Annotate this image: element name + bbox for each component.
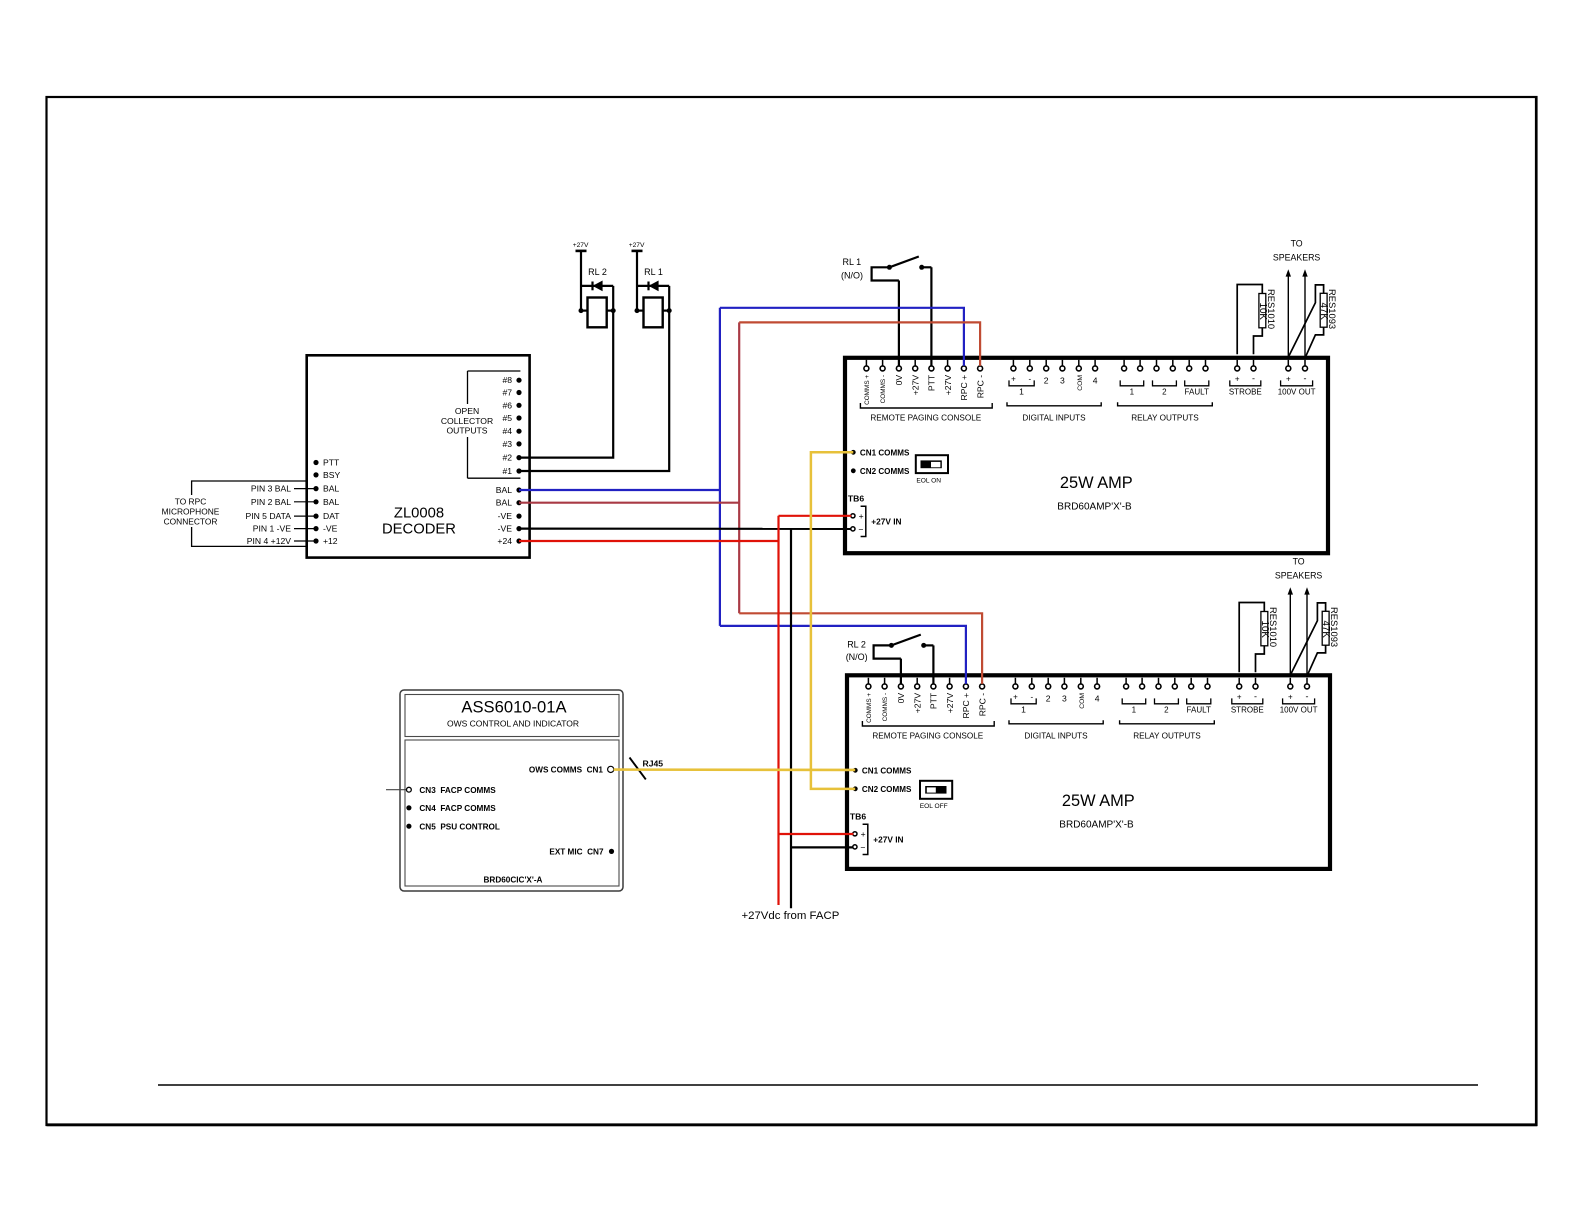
svg-text:PIN 5 DATA: PIN 5 DATA [245,511,291,521]
svg-text:-: - [1028,375,1031,384]
decoder left pin +12 [313,536,337,546]
svg-text:+12: +12 [323,536,338,546]
wire strobe- to RES1010 [1254,328,1263,355]
svg-text:(N/O): (N/O) [841,271,863,281]
svg-text:100V OUT: 100V OUT [1278,388,1316,397]
svg-text:ZL0008: ZL0008 [394,506,444,522]
terminals remote paging console amp2 [866,678,987,723]
svg-text:4: 4 [1095,694,1100,704]
terminals relay outputs amp1 [1120,360,1209,397]
svg-text:BRD60AMP'X'-B: BRD60AMP'X'-B [1057,501,1132,512]
decoder right pin BAL [496,485,522,495]
svg-text:DIGITAL INPUTS: DIGITAL INPUTS [1022,413,1086,422]
bracket digital inputs amp2 [1009,720,1103,740]
svg-text:CN1 COMMS: CN1 COMMS [862,766,912,775]
wire decoder #2 to RL2 coil [519,311,613,458]
label PIN 3 BAL [251,484,316,494]
svg-text:3: 3 [1060,376,1065,386]
svg-text:RELAY OUTPUTS: RELAY OUTPUTS [1133,731,1201,740]
footer rule line [158,1084,1478,1086]
svg-text:-: - [1304,374,1307,384]
label TO SPEAKERS [1275,557,1323,581]
svg-text:COMMS +: COMMS + [866,693,873,723]
power +27V supply for RL 1 [629,242,645,251]
terminals remote paging console amp1 [864,360,985,405]
speaker line + with arrow [1288,587,1293,674]
svg-text:(N/O): (N/O) [846,652,868,662]
decoder left pin DAT [313,511,340,521]
svg-text:3: 3 [1062,694,1067,704]
decoder right pin -VE [498,511,522,521]
svg-text:COLLECTOR: COLLECTOR [441,416,493,426]
relay contact RL 2 (N/O) [846,635,934,684]
wire RL 1 right side down [668,286,670,311]
svg-text:STROBE: STROBE [1229,388,1262,397]
svg-text:TO: TO [1291,239,1303,249]
svg-text:25W AMP: 25W AMP [1060,474,1133,492]
pin EXT MIC CN7 [549,848,614,857]
svg-text:+: + [861,829,866,839]
EOL switch amp1 (ON) [916,455,948,484]
svg-text:+: + [1288,693,1293,702]
svg-text:25W AMP: 25W AMP [1062,792,1135,810]
flyback diode D-RL 2 [581,281,613,292]
svg-text:1: 1 [1019,387,1024,397]
svg-text:+: + [1286,375,1291,384]
svg-text:COMMS -: COMMS - [882,693,889,721]
svg-text:0V: 0V [896,693,906,704]
junction dots RL 2 [579,308,616,313]
svg-text:CN2 COMMS: CN2 COMMS [862,785,912,794]
svg-text:TB6: TB6 [848,493,864,503]
svg-text:SPEAKERS: SPEAKERS [1273,253,1321,263]
svg-text:+: + [859,511,864,521]
decoder right pin +24 [497,536,521,546]
resistor RES1010 10K across strobe [1257,289,1277,329]
svg-text:PIN 3 BAL: PIN 3 BAL [251,484,291,494]
relay coil RL 1 [637,267,669,327]
wire black -VE branch down to lower amp TB6- [791,529,853,909]
decoder left pin PTT [313,458,340,468]
svg-text:+27V: +27V [912,693,922,714]
svg-text:+: + [1237,693,1242,702]
25W amp board U3 BRD60AMP'X'-B outline [847,675,1330,869]
svg-text:REMOTE PAGING CONSOLE: REMOTE PAGING CONSOLE [870,413,981,422]
pin CN1 COMMS amp2 [853,766,912,775]
OWS control box ASS6010-01A outline [400,690,623,891]
flyback diode D-RL 1 [637,281,669,292]
svg-text:#1: #1 [502,466,512,476]
svg-text:+27V: +27V [573,242,589,249]
svg-text:RPC +: RPC + [961,693,971,719]
terminals strobe amp2 [1231,678,1264,715]
svg-text:CN2 COMMS: CN2 COMMS [860,467,910,476]
EOL switch amp2 (OFF) [920,781,952,810]
resistor RES1093 47K across 100V out [1318,289,1338,329]
svg-text:+27V IN: +27V IN [873,835,903,845]
decoder right pin BAL [496,498,522,508]
svg-text:PIN 4 +12V: PIN 4 +12V [247,536,291,546]
speaker line + with arrow [1286,269,1291,356]
wire blue BAL pair decoder to RPC+ both amps [519,308,966,684]
wire red +24 decoder to +27V riser [519,540,779,542]
svg-text:BAL: BAL [496,485,512,495]
speaker line - with arrow [1304,587,1309,674]
svg-text:RPC -: RPC - [975,375,985,399]
power +27V supply for RL 2 [573,242,589,251]
RJ45 marker on OWS comms cable [630,758,664,780]
svg-text:+27V IN: +27V IN [871,517,901,527]
svg-text:FAULT: FAULT [1187,706,1211,715]
resistor RES1093 47K across 100V out [1320,607,1340,647]
svg-text:OWS CONTROL AND INDICATOR: OWS CONTROL AND INDICATOR [447,718,579,728]
svg-text:FAULT: FAULT [1185,388,1209,397]
svg-text:RL 2: RL 2 [847,640,866,650]
svg-text:PTT: PTT [323,458,340,468]
svg-text:OPEN: OPEN [455,406,479,416]
svg-text:COM: COM [1077,375,1084,391]
svg-text:PIN 1 -VE: PIN 1 -VE [253,524,291,534]
terminals digital inputs amp2 [1011,678,1100,715]
svg-text:CN3 FACP COMMS: CN3 FACP COMMS [419,786,496,795]
microphone connector bracket [192,481,307,546]
svg-text:CN4 FACP COMMS: CN4 FACP COMMS [419,804,496,813]
decoder left pin -VE [313,524,337,534]
resistor RES1010 10K across strobe [1259,607,1279,647]
label PIN 5 DATA [245,511,316,521]
terminals 100V out amp1 [1278,360,1316,397]
svg-text:#2: #2 [502,453,512,463]
svg-text:RPC -: RPC - [977,693,987,717]
terminals relay outputs amp2 [1122,678,1211,715]
decoder left pin BSY [313,470,340,480]
svg-text:+27V: +27V [910,375,920,396]
wire +27V to coil RL 1 [636,251,638,311]
svg-text:+27Vdc from FACP: +27Vdc from FACP [741,910,839,922]
svg-text:COMMS +: COMMS + [864,375,871,405]
open collector outputs bracket and label [441,371,521,478]
wire black -VE decoder to TB6- top amp [519,527,851,530]
svg-text:#5: #5 [502,413,512,423]
svg-text:RJ45: RJ45 [643,758,664,768]
svg-text:-: - [1030,693,1033,702]
svg-text:EOL OFF: EOL OFF [920,803,948,810]
bracket digital inputs amp1 [1007,402,1101,422]
svg-text:OWS COMMS CN1: OWS COMMS CN1 [529,766,604,775]
svg-text:RPC +: RPC + [959,375,969,401]
decoder left pin BAL [313,497,339,507]
svg-text:-: - [1306,692,1309,702]
svg-text:TB6: TB6 [850,811,866,821]
svg-text:100V OUT: 100V OUT [1280,706,1318,715]
label PIN 1 -VE [253,524,316,534]
svg-text:+27V: +27V [943,375,953,396]
svg-text:TO: TO [1293,557,1305,567]
svg-text:RES1010: RES1010 [1268,607,1279,647]
svg-text:#8: #8 [502,375,512,385]
svg-text:ASS6010-01A: ASS6010-01A [461,698,567,717]
svg-text:-VE: -VE [498,511,513,521]
svg-text:+27V: +27V [945,693,955,714]
svg-text:-VE: -VE [323,524,338,534]
decoder right pin #6 [502,400,521,410]
label PIN 4 +12V [247,536,316,546]
svg-text:RES1093: RES1093 [1327,289,1338,329]
svg-text:−: − [858,524,863,534]
pin CN5 PSU CONTROL [406,822,500,831]
decoder right pin #8 [502,375,521,385]
svg-text:1: 1 [1130,388,1135,397]
bracket remote paging console amp2 [862,721,994,740]
svg-text:#4: #4 [502,426,512,436]
svg-text:BSY: BSY [323,470,340,480]
svg-text:-: - [1254,692,1257,702]
svg-text:PTT: PTT [929,692,939,709]
decoder right pin -VE [498,524,522,534]
svg-text:+: + [1011,375,1016,384]
terminals 100V out amp2 [1280,678,1318,715]
svg-text:BAL: BAL [323,484,339,494]
wire strobe+ to RES1010 [1239,603,1264,673]
svg-text:+: + [1235,375,1240,384]
page border frame [47,97,1537,1125]
wire orange RPC- to top amp [739,322,980,366]
svg-text:4: 4 [1093,376,1098,386]
svg-text:#7: #7 [502,388,512,398]
svg-text:PTT: PTT [927,374,937,391]
svg-text:CN1 COMMS: CN1 COMMS [860,448,910,457]
svg-text:PIN 2 BAL: PIN 2 BAL [251,497,291,507]
terminals strobe amp1 [1229,360,1262,397]
svg-text:DIGITAL INPUTS: DIGITAL INPUTS [1024,731,1088,740]
svg-text:TO RPC: TO RPC [175,497,207,507]
wire 100V+ to RES1093 [1289,285,1324,356]
svg-text:2: 2 [1044,376,1049,386]
25W amp board U2 BRD60AMP'X'-B outline [845,358,1328,553]
svg-text:STROBE: STROBE [1231,706,1264,715]
decoder right pin #4 [502,426,521,436]
svg-text:RL 2: RL 2 [588,267,607,277]
svg-text:BAL: BAL [496,498,512,508]
label PIN 2 BAL [251,497,316,507]
svg-text:0V: 0V [894,375,904,386]
svg-text:+24: +24 [497,536,512,546]
wire RL 2 right side down [612,286,614,311]
wire 100V- to RES1093 [1308,645,1326,674]
label TO RPC MICROPHONE CONNECTOR [159,495,222,527]
pin CN3 FACP COMMS [386,786,496,795]
label TO SPEAKERS [1273,239,1321,263]
bracket relay outputs amp1 [1118,402,1213,422]
svg-text:OUTPUTS: OUTPUTS [446,426,487,436]
svg-text:+27V: +27V [629,242,645,249]
bracket relay outputs amp2 [1120,720,1215,740]
wire decoder #1 to RL1 coil [519,311,669,471]
decoder right pin #2 [502,453,521,463]
relay contact RL 1 (N/O) [841,257,931,366]
svg-text:REMOTE PAGING CONSOLE: REMOTE PAGING CONSOLE [872,731,983,740]
relay coil RL 2 [581,267,613,327]
decoder right pin #3 [502,439,521,449]
pin CN1 COMMS amp1 [851,448,910,457]
svg-text:DAT: DAT [323,511,340,521]
svg-text:RES1010: RES1010 [1266,289,1277,329]
decoder U1 ZL0008 body [307,355,530,557]
wire crimson BAL pair decoder vertical [519,322,739,613]
pin OWS COMMS CN1 [529,766,614,775]
svg-text:MICROPHONE: MICROPHONE [162,507,220,517]
svg-text:2: 2 [1164,706,1169,715]
svg-text:1: 1 [1021,705,1026,715]
svg-text:EOL ON: EOL ON [916,478,941,485]
svg-text:EXT MIC CN7: EXT MIC CN7 [549,848,604,857]
svg-text:SPEAKERS: SPEAKERS [1275,571,1323,581]
svg-text:+: + [1013,693,1018,702]
wire strobe- to RES1010 [1256,646,1265,673]
svg-text:BRD60CIC'X'-A: BRD60CIC'X'-A [484,875,543,884]
svg-text:#6: #6 [502,400,512,410]
svg-text:COMMS -: COMMS - [880,375,887,403]
speaker line - with arrow [1302,269,1307,356]
terminals digital inputs amp1 [1009,360,1098,397]
svg-text:-: - [1252,374,1255,384]
wire +27V to coil RL 2 [580,251,582,311]
decoder right pin #7 [502,388,521,398]
svg-text:CONNECTOR: CONNECTOR [164,517,218,527]
decoder right pin #1 [502,466,521,476]
svg-text:DECODER: DECODER [382,522,456,538]
svg-text:-VE: -VE [498,524,513,534]
pin CN4 FACP COMMS [406,804,496,813]
wire orange RPC- to lower amp [739,613,982,684]
svg-text:2: 2 [1162,388,1167,397]
wire yellow top amp CN1 to lower amp CN2 [811,452,855,789]
svg-text:BRD60AMP'X'-B: BRD60AMP'X'-B [1059,819,1134,830]
wire 100V- to RES1093 [1306,327,1324,356]
wire yellow OWS comms CN1 to lower amp CN1 [614,768,856,771]
svg-text:RES1093: RES1093 [1329,607,1340,647]
svg-text:#3: #3 [502,439,512,449]
svg-text:COM: COM [1079,693,1086,709]
bracket remote paging console amp1 [860,403,992,422]
wire red +27V riser from FACP [779,516,854,905]
svg-text:1: 1 [1132,706,1137,715]
svg-text:RELAY OUTPUTS: RELAY OUTPUTS [1131,413,1199,422]
wire 100V+ to RES1093 [1291,603,1326,674]
junction dots RL 1 [635,308,672,313]
svg-text:−: − [860,842,865,852]
terminal block TB6 amp1 [848,493,902,536]
decoder right pin #5 [502,413,521,423]
svg-text:RL 1: RL 1 [644,267,663,277]
terminal block TB6 amp2 [850,811,904,854]
ASS6010 body box [405,740,619,886]
ASS6010 header box [405,695,619,737]
wire strobe+ to RES1010 [1237,285,1262,355]
pin CN2 COMMS amp1 [851,467,910,476]
svg-text:2: 2 [1046,694,1051,704]
svg-text:BAL: BAL [323,497,339,507]
svg-text:RL 1: RL 1 [843,257,862,267]
decoder left pin BAL [313,484,339,494]
pin CN2 COMMS amp2 [853,785,912,794]
svg-text:CN5 PSU CONTROL: CN5 PSU CONTROL [419,822,500,831]
